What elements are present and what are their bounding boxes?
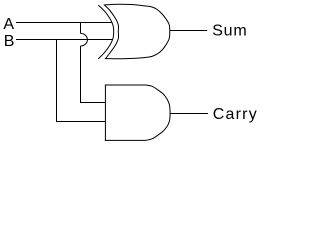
and-gate U2 nose curve — [146, 85, 170, 140]
wire AND output to Carry — [170, 113, 208, 115]
and-gate U2 bottom edge — [105, 139, 146, 141]
wire B branch vertical (node on wire B at x=55.9) — [56, 40, 58, 122]
xor-gate U1 outer input arc — [98, 5, 113, 59]
svg-text:B: B — [4, 33, 16, 50]
svg-text:Sum: Sum — [212, 23, 247, 40]
wire XOR output to Sum — [170, 30, 207, 32]
wire A horizontal from label A to XOR upper input — [16, 22, 112, 24]
svg-text:A: A — [3, 16, 15, 33]
wire A branch vertical lower segment — [80, 46, 82, 103]
wire B horizontal from label B to XOR lower input — [16, 39, 113, 41]
xor-gate U1 body — [104, 4, 169, 59]
svg-text:Carry: Carry — [213, 106, 258, 123]
and-gate U2 left edge — [104, 85, 106, 141]
wire A branch horizontal into AND upper input — [80, 102, 105, 104]
and-gate U2 top edge — [105, 84, 146, 86]
wire hop where A branch crosses over wire B — [81, 33, 88, 46]
wire A branch vertical upper segment (node on wire A at x=80.4) — [80, 23, 82, 34]
wire B branch horizontal into AND lower input — [56, 121, 105, 123]
